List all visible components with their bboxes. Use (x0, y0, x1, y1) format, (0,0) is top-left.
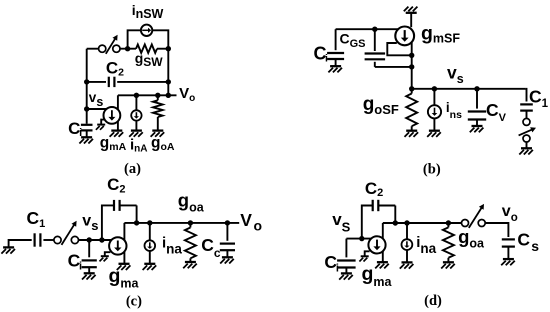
node (393, 220, 398, 225)
wire: gma bottom (123, 252, 125, 264)
node (409, 64, 414, 69)
capacitor Ci (b) (327, 29, 344, 66)
switch S1 (a) (99, 35, 120, 54)
node (166, 79, 171, 84)
ground (Ci b) (328, 66, 342, 72)
wire (86, 49, 88, 124)
ground (ina d) (400, 262, 414, 268)
ground (switch b) (519, 148, 533, 154)
node Vo (a) (166, 93, 171, 98)
node (134, 93, 139, 98)
node (372, 27, 377, 32)
wire (86, 131, 88, 138)
wire: right vertical (167, 49, 169, 96)
wire: vs rail (d) (346, 238, 371, 240)
switch S (d) (462, 204, 486, 228)
wire (526, 142, 528, 148)
wire (406, 250, 408, 262)
node vs (c) (87, 237, 92, 242)
svg-text:Ci: Ci (324, 252, 339, 275)
wire: vs rail (b) (412, 88, 526, 90)
node (155, 93, 160, 98)
current source inSW (141, 25, 152, 36)
ground (gma reference, d) (365, 251, 370, 256)
wire: inSW loop left (128, 30, 141, 48)
node (147, 220, 152, 225)
ground (gmA) (110, 131, 124, 137)
wire (149, 223, 151, 241)
node (99, 237, 104, 242)
capacitor C2 (a) (87, 77, 169, 87)
wire: gma bottom (d) (382, 251, 384, 262)
transconductance source gma (c) (109, 237, 126, 254)
noise source ins (428, 105, 441, 118)
wire (433, 89, 435, 105)
ground (ina c) (143, 264, 157, 270)
node (409, 53, 414, 58)
ground (goa d) (441, 262, 455, 268)
resistor goa (d) (443, 223, 454, 262)
capacitor Cc (220, 223, 235, 257)
wire (78, 239, 111, 241)
svg-text:Ci: Ci (314, 43, 329, 64)
capacitor C1 (b) (520, 89, 533, 119)
ground (ins) (427, 131, 441, 137)
capacitor CV (468, 89, 486, 126)
ground (gmA reference) (101, 120, 104, 125)
ground (Ci a) (79, 137, 93, 143)
node (404, 220, 409, 225)
wire: gmA bottom (117, 121, 119, 130)
svg-text:(a): (a) (124, 161, 141, 177)
node vs (d) (359, 236, 364, 241)
capacitor C2 (c) (102, 200, 137, 240)
node: switch/gSW/inSW junction (125, 46, 130, 51)
ground (gma d) (375, 262, 389, 268)
node (84, 79, 89, 84)
wire: gate rail (336, 28, 399, 30)
wire (43, 239, 54, 241)
ground (goSF) (405, 131, 419, 137)
svg-text:Ci: Ci (68, 251, 83, 273)
capacitor C2 (d) (362, 200, 396, 239)
node (474, 86, 479, 91)
ground (Cs) (501, 259, 515, 265)
node (188, 220, 193, 225)
node (134, 220, 139, 225)
ground (CV) (470, 126, 484, 132)
noise source ina (d) (402, 239, 413, 250)
transconductance source gmSF (395, 27, 414, 46)
noise source ina (c) (145, 240, 156, 251)
wire (157, 48, 168, 50)
ground (gma c) (117, 264, 131, 270)
wire: bulk/source loop (387, 43, 411, 55)
wire: gma top (123, 223, 125, 240)
ground (Ci d) (339, 273, 353, 279)
svg-text:Ci: Ci (68, 119, 82, 139)
wire (157, 95, 159, 100)
wire (135, 121, 137, 131)
capacitor Ci (c) (82, 240, 97, 273)
resistor goa (c) (185, 223, 196, 262)
capacitor Cs (502, 238, 515, 240)
wire (410, 13, 412, 27)
node (432, 86, 437, 91)
wire (433, 118, 435, 130)
capacitor C1 (c) (33, 233, 35, 246)
node (225, 220, 230, 225)
wire: main vertical (b) (411, 42, 413, 89)
wire (120, 48, 136, 50)
svg-text:(c): (c) (126, 294, 142, 310)
wire (485, 223, 508, 237)
wire: gmA top (117, 95, 119, 109)
ground (top, flipped) (404, 7, 418, 13)
capacitor Ci (a) (81, 124, 93, 126)
wire: vs to gmA (87, 108, 107, 110)
resistor goSF (406, 89, 417, 131)
resistor goA (153, 100, 163, 117)
wire (149, 251, 151, 264)
ground (inA) (129, 131, 143, 137)
wire: inSW loop right (152, 30, 168, 48)
node vs (a) (84, 106, 89, 111)
svg-text:(b): (b) (423, 161, 441, 177)
node (409, 86, 414, 91)
noise source inA (131, 110, 141, 120)
wire (406, 223, 408, 239)
wire (87, 48, 99, 50)
capacitor Ci (d) (337, 239, 356, 274)
transconductance source gma (d) (368, 236, 385, 253)
wire (9, 240, 32, 247)
ground (input, c) (1, 247, 15, 253)
wire (135, 95, 137, 110)
svg-text:(d): (d) (424, 293, 442, 309)
ground (goa c) (183, 262, 197, 268)
switch S (c) (54, 221, 79, 245)
node (446, 220, 451, 225)
ground (goA) (151, 131, 165, 137)
wire (507, 247, 509, 260)
ground (gma reference, c) (105, 252, 111, 256)
switch S (b) (519, 118, 536, 142)
wire (157, 117, 159, 131)
wire: output rail (d) (383, 222, 462, 224)
capacitor CGS (365, 29, 412, 67)
wire: gma top (d) (382, 223, 384, 239)
node (166, 46, 171, 51)
ground (Ci c) (82, 273, 96, 279)
resistor gSW (136, 45, 157, 53)
wire: output rail (c) (124, 222, 239, 224)
transconductance source gmA (104, 107, 121, 124)
ground (Cc) (220, 257, 234, 263)
wire: output rail (a) (118, 94, 177, 96)
